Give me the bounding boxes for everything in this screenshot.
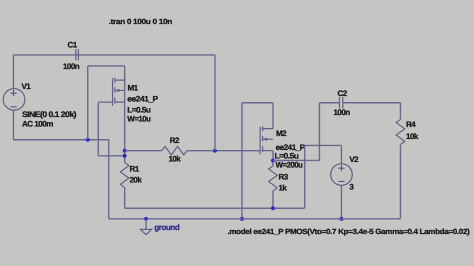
- wire M1 drain lead down: [124, 80, 126, 162]
- ground: [140, 219, 151, 235]
- wire R4 bottom lead: [399, 144, 401, 218]
- svg-text:L=0.5u: L=0.5u: [274, 152, 299, 161]
- wire R1 bottom lead: [124, 187, 126, 208]
- capacitor C2: [339, 97, 342, 108]
- wire V2 bottom lead: [340, 185, 342, 219]
- svg-text:V1: V1: [21, 82, 31, 91]
- svg-text:100n: 100n: [63, 62, 80, 71]
- wire M1 gate to drain: [98, 155, 124, 157]
- wire C2 right to R4: [343, 102, 401, 104]
- svg-text:M2: M2: [276, 129, 287, 138]
- svg-text:1k: 1k: [278, 183, 287, 192]
- wire vertical drop to ground rail: [108, 140, 110, 219]
- junction node M1 drain / gate feedback: [123, 154, 127, 158]
- wire R2 right to M2 gate: [187, 150, 260, 152]
- svg-text:W=10u: W=10u: [127, 115, 151, 124]
- wire V2 top lead: [340, 145, 342, 163]
- wire M1 gate vertical: [97, 102, 99, 156]
- svg-text:W=200u: W=200u: [276, 161, 303, 170]
- resistor R1: [120, 162, 129, 187]
- resistor R3: [269, 166, 278, 191]
- wire M1 source loop top: [88, 65, 125, 67]
- junction node V2 / ground rail: [340, 217, 344, 221]
- svg-text:AC 100m: AC 100m: [22, 119, 53, 128]
- svg-text:R1: R1: [129, 164, 139, 173]
- wire output branch horizontal: [273, 159, 320, 161]
- transistor M1: [98, 78, 124, 106]
- svg-text:L=0.5u: L=0.5u: [127, 105, 151, 114]
- voltage source V1: [3, 89, 25, 111]
- resistor R4: [396, 119, 405, 144]
- svg-text:C2: C2: [337, 89, 347, 98]
- junction node M2 drain / output branch: [271, 159, 275, 163]
- wire M2 source lead: [272, 103, 274, 129]
- wire V1 top lead: [12, 55, 14, 89]
- svg-text:C1: C1: [67, 40, 77, 49]
- svg-text:R4: R4: [406, 120, 416, 129]
- svg-text:ee241_P: ee241_P: [127, 95, 159, 104]
- wire V1 minus to ground drop: [13, 139, 108, 141]
- junction node ground tap: [144, 217, 148, 221]
- capacitor C1: [76, 49, 79, 60]
- wire M1 source lead: [124, 66, 126, 80]
- resistor R2: [162, 146, 187, 155]
- wire R3 bottom lead: [272, 191, 274, 208]
- svg-text:V2: V2: [349, 155, 359, 164]
- wire supply rail riser: [304, 145, 306, 208]
- wire C2 left: [319, 102, 339, 104]
- wire M2 drain lead: [272, 151, 274, 167]
- voltage source V2: [331, 164, 353, 186]
- wire V1 bottom lead: [12, 110, 14, 140]
- transistor M2: [260, 126, 273, 154]
- svg-text:.model ee241_P PMOS(Vto=0.7 Kp: .model ee241_P PMOS(Vto=0.7 Kp=3.4e-5 Ga…: [227, 227, 470, 236]
- svg-text:M1: M1: [127, 83, 138, 92]
- svg-text:R2: R2: [170, 136, 180, 145]
- wire V2 top feed: [305, 144, 342, 146]
- svg-text:10k: 10k: [406, 132, 419, 141]
- svg-text:SINE(0 0.1 20k): SINE(0 0.1 20k): [22, 110, 77, 119]
- junction node R2 out / C1 feed: [213, 149, 217, 153]
- wire M1 source branch vertical: [87, 66, 89, 140]
- wire ground rail: [109, 218, 401, 220]
- svg-text:R3: R3: [278, 172, 288, 181]
- wire R2 left: [125, 150, 162, 152]
- wire top rail node IN: [13, 54, 215, 56]
- junction node M1 drain / R2: [123, 149, 127, 153]
- wire M2 source loop left: [241, 103, 243, 219]
- wire supply rail: [125, 207, 305, 209]
- svg-text:100n: 100n: [333, 108, 350, 117]
- svg-text:ground: ground: [154, 223, 180, 232]
- svg-text:10k: 10k: [168, 155, 181, 164]
- svg-text:.tran 0 100u 0 10n: .tran 0 100u 0 10n: [109, 17, 173, 26]
- junction node M2 loop / ground rail: [240, 217, 244, 221]
- wire output branch up to C2: [318, 103, 320, 161]
- wire C1 right rail drop: [214, 55, 216, 151]
- junction node at V1 wire and M1 source branch: [86, 138, 90, 142]
- wire R4 top lead: [399, 103, 401, 120]
- wire M2 source loop top: [242, 102, 273, 104]
- junction node R3 / supply rail: [271, 206, 275, 210]
- svg-text:20k: 20k: [129, 175, 142, 184]
